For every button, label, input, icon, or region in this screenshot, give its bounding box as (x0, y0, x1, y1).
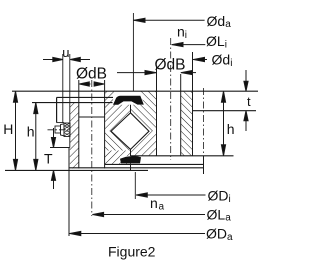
outer ring rabbet face and ØDa extension (68, 148, 70, 237)
bottom seal (120, 156, 141, 164)
svg-text:h: h (27, 123, 35, 139)
svg-text:h: h (227, 121, 235, 137)
t dimension (244, 70, 248, 131)
T dimension (51, 128, 55, 189)
inner ring bolt hole left edge (156, 66, 158, 156)
bolt hole left edge (outer ring) (78, 80, 80, 168)
seating baseline (5, 169, 148, 171)
u extension line left (62, 54, 64, 123)
svg-text:Figure2: Figure2 (108, 244, 156, 260)
svg-text:Ødi: Ødi (212, 52, 233, 70)
grease fitting axis centreline (48, 129, 71, 131)
outer ring bottom line (69, 167, 204, 169)
svg-text:t: t (247, 94, 251, 109)
outer ring upper-left hatch (105, 91, 131, 131)
bolt hole right edge / centre block left edge (104, 80, 106, 168)
outer ring groove line with h extension (32, 102, 113, 104)
outer ring base strip hatch (105, 151, 131, 165)
bottom right tick (203, 156, 205, 174)
inner ring outer band hatch (181, 91, 193, 156)
outer ring lower-left hatch (105, 131, 131, 150)
outer ring top face line (57, 96, 113, 98)
top surface line of inner assembly with H and t extension (12, 90, 258, 92)
u dimension arrows (43, 57, 90, 61)
inner ring upper-right hatch (131, 91, 157, 131)
outer ring rabbet floor line with T extension (50, 147, 70, 149)
inner ring bore face with Ødi extension (192, 52, 194, 156)
inner ring bolt hole right edge (180, 74, 182, 156)
svg-text:u: u (62, 45, 69, 60)
svg-text:ØdB: ØdB (155, 56, 186, 73)
top seal (113, 96, 144, 105)
h left dimension (34, 103, 38, 171)
inner ring bore step line with t extension (193, 110, 257, 112)
roller diamond (111, 113, 149, 150)
ØDi dimension line (136, 193, 206, 197)
ØDa dimension line (70, 231, 206, 235)
gap line below roller (130, 149, 132, 156)
Øda dimension line (133, 18, 204, 22)
svg-text:H: H (3, 121, 13, 137)
inner ring bolt hole centreline (170, 38, 172, 160)
inner ring lower-right hatch (131, 131, 157, 156)
ØLa dimension line (92, 212, 205, 216)
u extension line right (69, 54, 71, 148)
outer ring left face (56, 97, 58, 122)
h right dimension (221, 91, 225, 156)
outer ring bolt hole centreline (91, 80, 93, 216)
svg-text:T: T (44, 151, 53, 167)
inner ring bottom line (131, 155, 234, 157)
counterbore line in outer ring bolt hole (79, 116, 105, 118)
Øda extension line (132, 13, 134, 91)
Ødi dimension line (193, 57, 207, 61)
grease fitting G (55, 123, 70, 137)
svg-text:ØDi: ØDi (208, 188, 231, 206)
gap line below bottom seal (130, 164, 132, 171)
ØdB right dimension line (117, 71, 196, 75)
outer ring flange hatch band (70, 103, 79, 169)
support line upper (105, 163, 204, 165)
ØDi extension line (134, 172, 136, 199)
gap line above roller (130, 105, 132, 113)
ØLi dimension line (172, 43, 206, 47)
H dimension (13, 91, 17, 170)
right phantom centreline (203, 88, 205, 156)
svg-text:ØLi: ØLi (206, 33, 227, 51)
ØdB left dimension arrows (79, 82, 104, 86)
